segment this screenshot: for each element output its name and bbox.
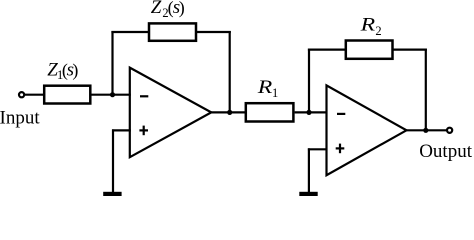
wire node C up to R2 rail [308,49,310,114]
wire R2 right to corner [393,48,427,50]
wire Z2 right to corner [196,31,231,33]
plus sign U2 horizontal [336,147,345,149]
plus sign U1 vertical [143,126,145,136]
plus sign U2 vertical [339,144,341,154]
svg-text:): ) [72,60,78,81]
wire feedback down to node D [425,49,427,131]
node A junction [110,92,115,97]
ground 1 wire [112,129,114,192]
svg-text:R: R [359,14,375,35]
wire node A up to Z2 rail [111,31,113,96]
label R2 [359,14,381,38]
node D junction [423,128,428,133]
minus sign U2 [337,113,345,115]
svg-text:Z: Z [151,0,162,18]
wire U1 output to node B [210,111,246,113]
label R1 [257,77,279,100]
wire to R2 left [308,48,346,50]
resistor R1 [246,103,294,121]
svg-text:R: R [257,77,273,98]
label Z2(s) [151,0,185,20]
ground 2 bar [299,192,317,196]
svg-text:): ) [179,0,185,19]
ground 2 wire [308,148,310,192]
node C junction [306,110,311,115]
wire input to Z1 [25,94,44,96]
resistor R2 [346,41,393,59]
wire U1 plus input [112,129,131,131]
resistor Z1 [44,86,90,104]
wire to Z2 left [111,31,149,33]
resistor Z2 [149,23,196,40]
label Z1(s) [47,60,78,82]
op-amp U2 [327,85,407,175]
plus sign U1 horizontal [139,129,148,131]
wire feedback down to node B [229,31,231,112]
output terminal [447,128,452,133]
svg-text:2: 2 [375,24,381,38]
minus sign U1 [140,95,148,97]
svg-text:1: 1 [272,86,278,100]
wire U2 plus input [308,148,328,150]
node B junction [227,110,232,115]
svg-text:Input: Input [0,108,40,129]
op-amp U1 [130,68,212,158]
wire Z1 to node A [92,94,131,96]
input terminal [19,92,24,97]
wire R1 to node C [295,111,328,113]
wire U2 output to node D [406,129,447,131]
ground 1 bar [103,192,121,196]
svg-text:Output: Output [419,141,473,162]
